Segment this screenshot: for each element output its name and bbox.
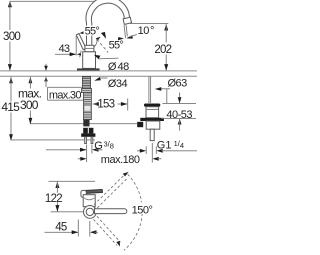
top view body column	[83, 195, 95, 207]
union nut flange	[81, 133, 95, 136]
svg-text:43: 43	[59, 43, 70, 55]
dimension 202 outlet height	[154, 24, 171, 71]
G1-1/4 drain thread dimension	[137, 146, 197, 154]
svg-text:G1 1/4: G1 1/4	[157, 139, 184, 151]
svg-text:122: 122	[45, 193, 62, 205]
55-degree lift arc right arrow	[101, 32, 106, 39]
svg-text:55°: 55°	[85, 26, 100, 38]
diameter 63 label with leader	[155, 78, 187, 104]
svg-text:55°: 55°	[109, 39, 124, 51]
G3/8 thread dimension	[46, 145, 103, 163]
pop-up threaded tail G1-1/4	[150, 129, 154, 140]
escutcheon base	[77, 68, 100, 71]
10-degree reference line	[130, 23, 168, 25]
swivel range dashed arc	[124, 174, 142, 250]
deck top line	[0, 70, 197, 72]
svg-text:45: 45	[55, 222, 67, 234]
pop-up side nub	[137, 122, 143, 127]
svg-text:415: 415	[1, 100, 20, 114]
svg-text:10°: 10°	[138, 25, 154, 37]
dimension max 300 below-deck chain B	[18, 77, 43, 125]
pop-up upper body	[146, 107, 159, 118]
pop-up lower body	[146, 121, 160, 129]
pop-up knob cap	[144, 104, 160, 107]
flexible supply hoses	[83, 93, 91, 120]
arrowhead phantom up	[123, 172, 129, 177]
svg-text:max.180: max.180	[101, 154, 140, 166]
union nuts	[83, 128, 93, 134]
svg-text:300: 300	[3, 31, 20, 43]
diameter 34 label with leader	[94, 77, 127, 90]
diameter 48 label with leader	[94, 55, 129, 73]
extension line fitting end chain A	[11, 139, 95, 141]
phantom spout swivel up dashed	[94, 175, 128, 208]
top view lever bar	[85, 190, 103, 194]
svg-text:153: 153	[97, 99, 114, 111]
top view hub outer ring	[84, 206, 97, 219]
dimension 415 below-deck chain A	[1, 77, 20, 141]
svg-text:40-53: 40-53	[166, 109, 192, 121]
phantom spout swivel down dashed	[94, 216, 121, 245]
cartridge cap	[85, 45, 94, 52]
phantom lever down dashed lines	[79, 51, 84, 61]
wire top extension line from spout apex to left margin	[10, 0, 108, 2]
svg-text:300: 300	[20, 98, 39, 112]
svg-text:150°: 150°	[132, 204, 153, 216]
max.30 deck thickness dimension	[44, 64, 84, 102]
dimension 40-53 knob travel	[161, 93, 196, 131]
svg-text:max.30: max.30	[49, 89, 81, 101]
extension line hoses end chain B	[30, 123, 137, 125]
arrowhead phantom down	[116, 241, 120, 247]
svg-text:Ø63: Ø63	[168, 78, 188, 90]
55-degree lift label	[84, 26, 103, 36]
svg-text:202: 202	[154, 44, 171, 56]
top view spout bar	[95, 209, 127, 214]
55-degree swing arc with arrow	[92, 37, 101, 50]
dimension 43 lever reach	[55, 36, 81, 57]
deck bottom line	[0, 75, 197, 77]
faucet body	[83, 52, 96, 69]
water stream line	[124, 25, 125, 38]
dimension 153 pop-up distance	[92, 99, 127, 111]
mounting nut	[81, 89, 91, 93]
55-degree lift arc left arrow	[79, 30, 85, 34]
lever handle side view	[76, 34, 86, 50]
pop-up flange	[140, 118, 164, 121]
150-degree label	[131, 204, 155, 214]
dimension 122 top view	[45, 181, 96, 212]
dimension 300 spout height left chain	[2, 1, 22, 71]
top view lever knuckle	[81, 190, 86, 197]
svg-text:Ø34: Ø34	[108, 78, 128, 90]
pop-up waste rod	[149, 76, 151, 103]
dimension max.180	[78, 143, 162, 166]
goose-neck spout tube	[86, 0, 129, 46]
10-degree angle arrows and leader	[118, 34, 137, 40]
dimension 45 top view	[45, 220, 99, 237]
hose end connector	[83, 120, 89, 127]
top view hub inner circle	[86, 208, 93, 215]
phantom lever dashed line	[97, 39, 108, 52]
aerator at spout outlet	[123, 17, 131, 24]
G3/8 connection tails	[85, 137, 87, 144]
threaded shank below deck	[82, 76, 90, 88]
